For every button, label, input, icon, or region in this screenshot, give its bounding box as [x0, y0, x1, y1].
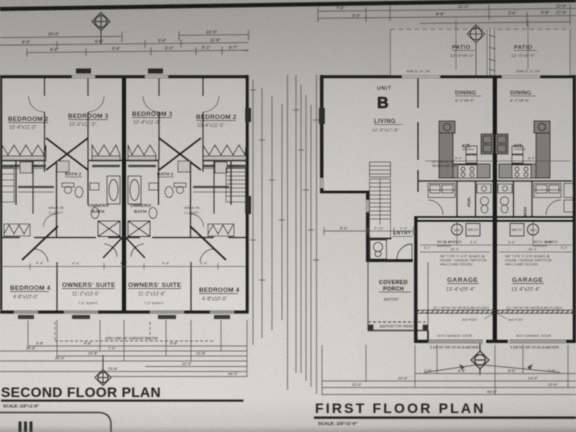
interior paper lightening patios: [390, 29, 570, 75]
porch-to-garage step: [427, 331, 429, 342]
north arrow (left plan): [92, 13, 110, 45]
kitchen right unit counters: [496, 121, 551, 178]
right plan: party wall: [493, 78, 498, 343]
bottom dim verticals (right plan): [322, 345, 568, 395]
microlam beam hatched band: [414, 310, 576, 313]
entry label: [392, 231, 413, 237]
half wall below stairs: [370, 238, 392, 240]
garage top wall: [414, 216, 576, 218]
room label GARAGE (right unit): [511, 277, 544, 293]
patio left outline: [391, 20, 488, 75]
storage left edge (left plan): [0, 168, 14, 202]
water heater + mech (right unit): [510, 224, 539, 237]
porch dim row: [324, 227, 413, 235]
room label DINING (left unit): [455, 91, 481, 103]
window label box (left): [76, 69, 91, 74]
garage left wall: [414, 216, 418, 343]
top dimension row 2 (left plan): [0, 40, 249, 50]
washer/dryer boxes (right unit): [178, 161, 227, 173]
entry door arc: [397, 244, 412, 259]
stairs (right side of left plan): [226, 168, 246, 202]
dim row b1: [0, 346, 247, 377]
gyp board notes (right unit): [505, 255, 552, 267]
patio door opening (right unit): [502, 75, 540, 78]
water heater + mech (left unit): [451, 224, 480, 237]
dashed line of garage below: [55, 322, 215, 341]
top dark photo band: [0, 0, 576, 11]
bedroom 4 closets: [4, 224, 234, 236]
closet zigzag (far left): [2, 145, 46, 166]
tub (right unit owners bath): [128, 176, 141, 204]
room label BEDROOM 4 (right): [199, 287, 240, 303]
walk-in closet label (right unit): [184, 206, 200, 215]
diagonal corner walls bedroom 4 (right unit): [190, 226, 226, 262]
vertical drop ticks: [28, 320, 247, 377]
room label OWNERS' SUITE (right): [128, 282, 182, 298]
interior paper lightening left plan: [0, 78, 248, 311]
right plan: step wall under living: [320, 191, 368, 194]
garage front wall segments: [414, 340, 429, 343]
room label BEDROOM 2 (far right): [196, 114, 237, 129]
kitchen left unit appliances: [443, 123, 491, 178]
detail box bottom-left: [0, 413, 111, 432]
interior walls bottom rooms: [57, 262, 191, 310]
right plan: top exterior wall: [320, 75, 576, 78]
right wall lower label box: [245, 196, 251, 214]
title underline: [1, 400, 244, 402]
bath fixtures small (right unit): [149, 183, 186, 219]
right plan: right wall (cropped): [573, 75, 576, 342]
garage dim row: [420, 222, 572, 245]
title underline: [314, 417, 576, 419]
hinge bars in detail box: [19, 422, 33, 432]
living bay window label box: [319, 108, 325, 124]
kitchen label KIT. (left): [462, 144, 474, 150]
washer/dryer boxes (left unit): [20, 161, 69, 173]
corner closet bowtie X (right unit): [159, 138, 201, 170]
bottom dimension rows (right plan): [322, 374, 576, 395]
top dimension row 3 (left plan): [27, 47, 249, 57]
interior vertical walls bath band: [16, 161, 231, 238]
room label BEDROOM 3 (right): [132, 111, 173, 126]
right plan: living bay left wall: [320, 75, 324, 191]
property line strip between patios: [489, 28, 496, 75]
left plan: bottom exterior wall: [0, 310, 249, 313]
closet walls verticals: [45, 78, 204, 172]
kitchen right unit appliances: [498, 123, 546, 178]
left plan: left edge wall (cropped): [0, 78, 2, 310]
right plan: lower left wall: [366, 191, 369, 263]
window label box (right): [148, 69, 163, 74]
left plan: right exterior wall: [246, 75, 249, 313]
room label DINING (right unit): [510, 91, 536, 103]
closet zigzag (far right): [203, 145, 246, 166]
room label OWNERS' SUITE (left): [62, 282, 116, 298]
patio door opening (left unit): [402, 75, 440, 78]
patio right outline: [498, 20, 571, 75]
between-plans vertical dimension lines: [250, 75, 288, 390]
pantry above stairs: [370, 162, 391, 177]
mid dim row above bottom rooms: [0, 263, 246, 270]
walk-in closet label (left unit): [48, 206, 64, 215]
powder closet (right unit): [534, 184, 561, 216]
mid dimension tick row: [0, 168, 246, 170]
4x4 post notes: [462, 318, 524, 322]
section marker diamond: [471, 343, 489, 375]
kitchen label KIT. (right): [514, 144, 526, 150]
tub (left unit owners bath): [107, 176, 120, 204]
bath label BATH 2 (right unit): [157, 172, 174, 177]
interior paper lightening right plan: [320, 78, 576, 343]
left plan: top exterior wall: [0, 75, 249, 78]
walk-in closet walls + rods: [33, 161, 214, 215]
mech damage barrier notes: [424, 240, 567, 250]
room label LIVING: [372, 119, 402, 134]
corner closet bowtie X (left unit): [46, 138, 88, 170]
top dimension rows (right plan): [318, 4, 576, 26]
kitchen dim row: [425, 160, 570, 162]
patio left label: [450, 45, 475, 59]
closet zigzag (mid-left): [92, 145, 120, 166]
diagonal corner walls at party wall: [103, 238, 145, 258]
garage door sills: [429, 340, 567, 343]
powder fixtures (right unit): [498, 184, 512, 213]
bath fixtures small (left unit): [62, 183, 99, 219]
north arrow (bottom, left plan): [95, 355, 111, 386]
diagonal corner walls bedroom 4 (left unit): [22, 226, 58, 262]
wc fixtures near entry: [370, 240, 387, 259]
window gap markers on right plan left walls: [320, 178, 369, 212]
owners bath label (right unit): [130, 203, 152, 214]
right edge fixtures: [564, 184, 573, 213]
window in top wall (right): [145, 75, 168, 78]
living/dining divider wall: [417, 78, 419, 192]
right plan left vertical dimension lines: [293, 75, 319, 394]
covered porch outline: [368, 262, 428, 331]
interior wall: bath band bottom: [0, 237, 246, 239]
window in top wall (left): [72, 75, 95, 78]
right wall window label box: [245, 108, 251, 122]
unit label UNIT B: [377, 86, 392, 112]
shower with X (right unit): [128, 221, 150, 237]
powder closet (left unit): [428, 184, 455, 216]
roof peak slanted dim lines: [424, 365, 560, 373]
covered porch label: [379, 280, 411, 293]
shower with X (left unit): [98, 221, 120, 237]
room label BEDROOM 3 (left): [68, 113, 109, 128]
bottom wall windows: [14, 311, 38, 314]
right plan: entry front wall: [366, 259, 413, 262]
coat closet note: [432, 160, 458, 168]
north arrow (right plan): [467, 25, 485, 75]
bottom window sill labels: [18, 315, 34, 319]
kitchen left unit counters: [439, 121, 494, 178]
hall/powder walls: [418, 181, 572, 216]
interior wall: bath band top: [0, 160, 246, 162]
patio right label: [511, 45, 537, 59]
gyp board notes (left unit): [440, 255, 487, 267]
powder fixtures (left unit): [477, 184, 491, 213]
room label GARAGE (left unit): [446, 277, 479, 293]
room label BEDROOM 4 (left): [10, 285, 51, 301]
bedroom door arcs: [29, 96, 220, 112]
left plan: central party wall: [122, 78, 126, 311]
owners bath label (left unit): [88, 203, 110, 214]
bath label BATH 2 (left unit): [65, 172, 82, 177]
top dimension row 1 (left plan): [0, 30, 249, 42]
stairs (right plan): [370, 179, 391, 239]
closet zigzag (mid-right): [128, 145, 156, 166]
room label BEDROOM 2 (far left): [8, 116, 49, 131]
